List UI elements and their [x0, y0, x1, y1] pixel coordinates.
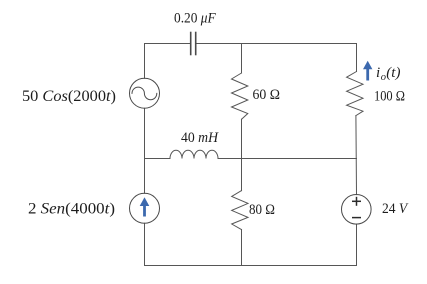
svg-text:50 Cos(2000t): 50 Cos(2000t)	[22, 88, 116, 105]
resistor R3 100ohm zigzag	[347, 72, 363, 116]
output current io arrow blue	[363, 61, 372, 81]
svg-text:i: i	[376, 65, 380, 81]
wire middle horizontal right	[218, 158, 357, 160]
DC source plus sign	[352, 197, 361, 218]
AC source sine symbol	[132, 87, 157, 100]
wire right upper	[356, 44, 358, 72]
svg-text:o: o	[381, 72, 386, 83]
wire top-right segment	[196, 43, 357, 45]
resistor R2 80ohm zigzag	[232, 191, 248, 230]
svg-text:40 mH: 40 mH	[181, 130, 219, 146]
svg-text:60 Ω: 60 Ω	[253, 87, 281, 103]
DC source minus sign	[352, 217, 361, 219]
wire top-left segment	[145, 43, 191, 45]
inductor L1 40mH humps	[170, 150, 218, 158]
wire right middle	[355, 116, 358, 195]
wire middle branch lower	[241, 230, 243, 266]
wire left lower	[144, 223, 146, 265]
svg-text:24 V: 24 V	[382, 201, 409, 217]
svg-text:2 Sen(4000t): 2 Sen(4000t)	[28, 200, 115, 217]
svg-text:100 Ω: 100 Ω	[374, 88, 405, 104]
svg-text:(t): (t)	[386, 65, 400, 81]
capacitor C1 0.20uF plates	[191, 33, 196, 55]
wire left middle	[144, 108, 146, 193]
wire left upper	[144, 44, 146, 79]
resistor R1 60ohm zigzag	[232, 73, 248, 119]
wire middle branch upper	[241, 44, 243, 74]
DC voltage source V2 24V circle	[342, 195, 372, 225]
svg-text:80 Ω: 80 Ω	[249, 202, 275, 218]
wire middle branch center	[241, 119, 243, 190]
wire bottom	[145, 265, 357, 267]
wire right lower	[356, 224, 358, 266]
AC voltage source V1 circle	[130, 78, 160, 108]
svg-text:0.20 μF: 0.20 μF	[174, 10, 216, 26]
wire middle horizontal left	[145, 158, 171, 160]
current source I1 blue arrow	[140, 197, 150, 216]
current source I1 circle	[130, 193, 160, 223]
